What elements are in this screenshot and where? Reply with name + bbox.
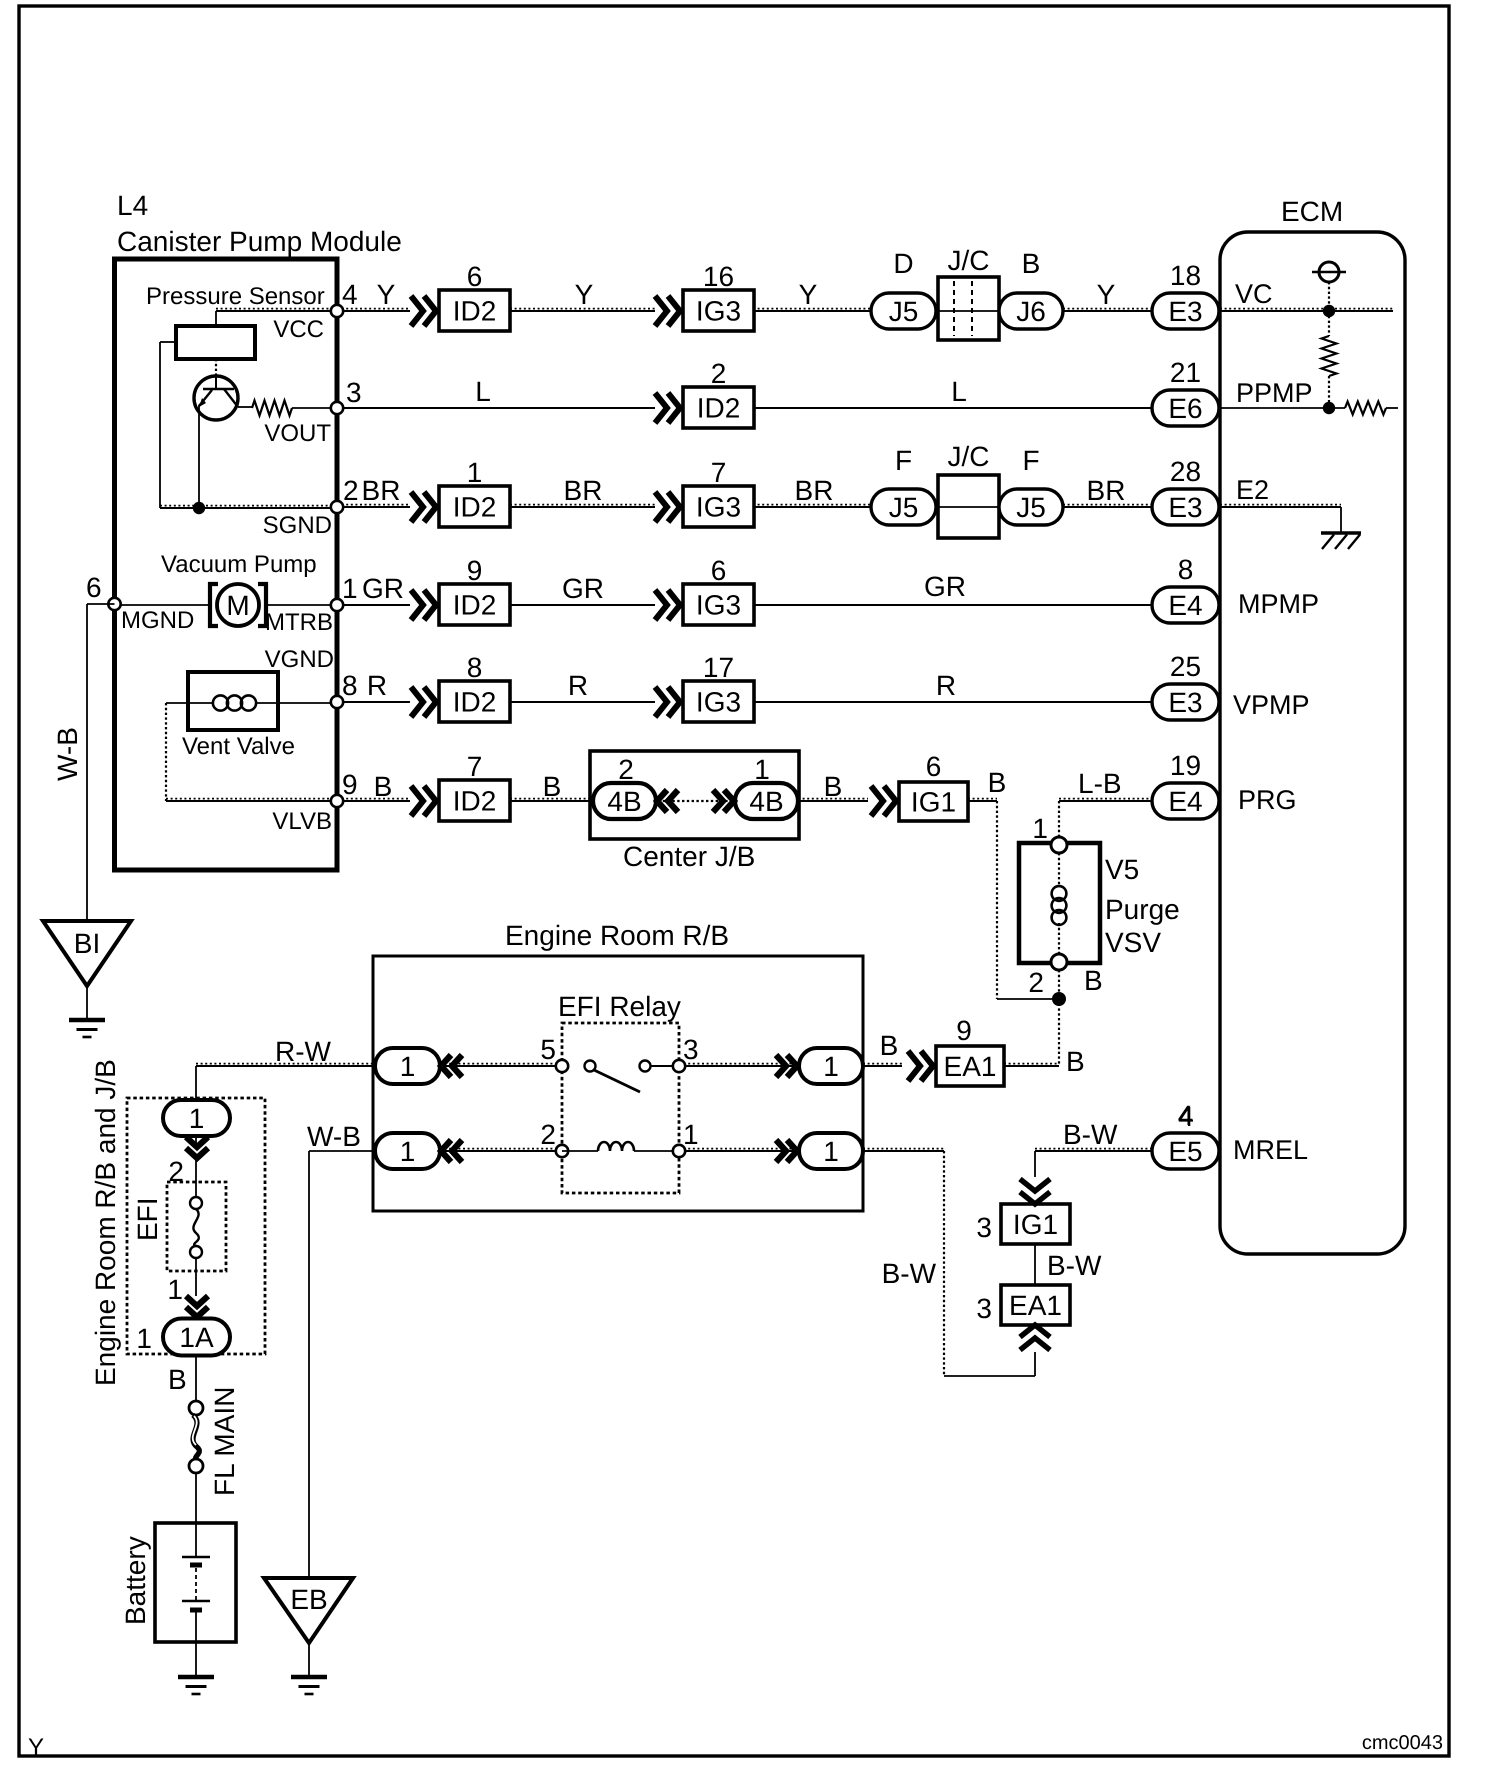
svg-text:18: 18 [1170, 260, 1201, 291]
svg-text:L: L [951, 376, 967, 407]
svg-text:VPMP: VPMP [1233, 690, 1310, 720]
svg-text:2: 2 [1028, 967, 1044, 998]
svg-text:BI: BI [74, 928, 100, 959]
svg-text:9: 9 [956, 1015, 972, 1046]
svg-text:1: 1 [1032, 813, 1048, 844]
svg-text:8: 8 [467, 652, 483, 683]
svg-text:1: 1 [167, 1274, 183, 1305]
svg-text:VCC: VCC [273, 316, 324, 343]
svg-text:4: 4 [342, 279, 358, 310]
svg-text:28: 28 [1170, 456, 1201, 487]
svg-text:6: 6 [711, 555, 727, 586]
svg-text:E3: E3 [1168, 492, 1202, 523]
svg-text:R: R [568, 670, 588, 701]
svg-text:Y: Y [28, 1734, 44, 1761]
svg-text:E3: E3 [1168, 687, 1202, 718]
svg-text:VLVB: VLVB [272, 808, 332, 835]
svg-text:E6: E6 [1168, 393, 1202, 424]
svg-text:EFI Relay: EFI Relay [558, 991, 681, 1022]
svg-text:IG3: IG3 [696, 687, 741, 718]
svg-text:IG1: IG1 [911, 787, 956, 818]
svg-text:E2: E2 [1236, 475, 1269, 505]
svg-text:1: 1 [136, 1323, 152, 1354]
svg-text:GR: GR [562, 573, 604, 604]
svg-text:VSV: VSV [1105, 927, 1161, 958]
svg-text:1: 1 [342, 573, 358, 604]
svg-text:B: B [1022, 248, 1041, 279]
svg-text:21: 21 [1170, 357, 1201, 388]
svg-text:Y: Y [575, 279, 594, 310]
svg-text:F: F [895, 445, 912, 476]
svg-text:6: 6 [926, 751, 942, 782]
svg-text:1: 1 [823, 1051, 839, 1082]
svg-text:W-B: W-B [307, 1121, 361, 1152]
svg-text:V5: V5 [1105, 854, 1139, 885]
svg-text:Canister Pump Module: Canister Pump Module [117, 226, 402, 257]
svg-text:IG1: IG1 [1013, 1209, 1058, 1240]
svg-text:5: 5 [540, 1034, 556, 1065]
svg-text:1A: 1A [179, 1322, 214, 1353]
svg-text:16: 16 [703, 261, 734, 292]
svg-text:4B: 4B [749, 786, 783, 817]
svg-text:Pressure Sensor: Pressure Sensor [146, 283, 325, 310]
svg-text:1: 1 [400, 1136, 416, 1167]
svg-text:B: B [1066, 1046, 1085, 1077]
svg-text:B: B [824, 771, 843, 802]
svg-text:Engine Room R/B and J/B: Engine Room R/B and J/B [90, 1059, 121, 1386]
svg-text:SGND: SGND [263, 512, 332, 539]
svg-text:MPMP: MPMP [1238, 589, 1319, 619]
svg-text:1: 1 [467, 457, 483, 488]
svg-text:EFI: EFI [132, 1197, 163, 1241]
svg-text:Vacuum Pump: Vacuum Pump [161, 551, 317, 578]
svg-text:4B: 4B [607, 786, 641, 817]
svg-text:Y: Y [377, 279, 396, 310]
svg-text:W-B: W-B [52, 727, 83, 781]
svg-text:J5: J5 [1016, 492, 1046, 523]
svg-text:Engine Room R/B: Engine Room R/B [505, 920, 729, 951]
svg-text:GR: GR [924, 571, 966, 602]
svg-text:B: B [168, 1364, 187, 1395]
svg-text:B-W: B-W [1047, 1250, 1102, 1281]
svg-text:J/C: J/C [948, 245, 990, 276]
svg-text:E3: E3 [1168, 296, 1202, 327]
svg-text:Y: Y [1097, 279, 1116, 310]
svg-text:IG3: IG3 [696, 492, 741, 523]
svg-text:R: R [936, 670, 956, 701]
svg-text:BR: BR [1087, 475, 1126, 506]
svg-text:BR: BR [362, 475, 401, 506]
svg-text:IG3: IG3 [696, 296, 741, 327]
svg-text:B: B [374, 771, 393, 802]
svg-text:D: D [893, 248, 913, 279]
svg-text:8: 8 [1178, 554, 1194, 585]
svg-text:19: 19 [1170, 750, 1201, 781]
svg-text:MGND: MGND [121, 607, 194, 634]
svg-text:2: 2 [343, 475, 359, 506]
svg-text:ECM: ECM [1281, 196, 1343, 227]
svg-text:Battery: Battery [120, 1536, 151, 1625]
svg-text:PRG: PRG [1238, 785, 1297, 815]
svg-text:EA1: EA1 [944, 1051, 997, 1082]
svg-text:FL MAIN: FL MAIN [209, 1387, 240, 1496]
svg-text:R-W: R-W [275, 1036, 332, 1067]
svg-text:IG3: IG3 [696, 590, 741, 621]
svg-text:4: 4 [1178, 1101, 1194, 1132]
svg-text:VGND: VGND [265, 646, 334, 673]
svg-text:1: 1 [823, 1136, 839, 1167]
svg-text:1: 1 [189, 1103, 205, 1134]
svg-text:17: 17 [703, 652, 734, 683]
svg-text:25: 25 [1170, 651, 1201, 682]
svg-text:3: 3 [346, 377, 362, 408]
svg-text:7: 7 [467, 751, 483, 782]
svg-text:ID2: ID2 [697, 393, 741, 424]
svg-text:B: B [543, 771, 562, 802]
svg-text:E5: E5 [1168, 1136, 1202, 1167]
svg-text:MTRB: MTRB [265, 609, 333, 636]
svg-text:2: 2 [540, 1119, 556, 1150]
svg-text:J6: J6 [1016, 296, 1046, 327]
svg-text:3: 3 [683, 1034, 699, 1065]
svg-text:J/C: J/C [948, 441, 990, 472]
svg-text:E4: E4 [1168, 786, 1202, 817]
svg-text:Center J/B: Center J/B [623, 841, 755, 872]
svg-text:GR: GR [362, 573, 404, 604]
svg-text:cmc0043: cmc0043 [1362, 1732, 1443, 1754]
svg-text:ID2: ID2 [453, 492, 497, 523]
svg-text:M: M [226, 590, 249, 621]
svg-text:ID2: ID2 [453, 687, 497, 718]
svg-text:J5: J5 [889, 296, 919, 327]
svg-text:VOUT: VOUT [264, 420, 331, 447]
svg-text:E4: E4 [1168, 590, 1202, 621]
svg-text:8: 8 [342, 670, 358, 701]
svg-text:MREL: MREL [1233, 1135, 1308, 1165]
svg-text:F: F [1022, 445, 1039, 476]
svg-text:VC: VC [1235, 279, 1273, 309]
svg-text:1: 1 [400, 1051, 416, 1082]
svg-text:Y: Y [799, 279, 818, 310]
svg-text:7: 7 [711, 457, 727, 488]
svg-text:9: 9 [342, 769, 358, 800]
svg-text:ID2: ID2 [453, 786, 497, 817]
svg-text:EB: EB [290, 1584, 327, 1615]
svg-text:2: 2 [711, 358, 727, 389]
svg-text:6: 6 [86, 572, 102, 603]
svg-text:3: 3 [976, 1293, 992, 1324]
svg-text:1: 1 [754, 754, 770, 785]
svg-text:B: B [1084, 965, 1103, 996]
svg-text:L-B: L-B [1078, 768, 1122, 799]
svg-text:B: B [880, 1030, 899, 1061]
svg-text:1: 1 [683, 1119, 699, 1150]
svg-text:BR: BR [564, 475, 603, 506]
svg-text:6: 6 [467, 261, 483, 292]
svg-text:BR: BR [795, 475, 834, 506]
svg-text:EA1: EA1 [1009, 1290, 1062, 1321]
svg-text:PPMP: PPMP [1236, 378, 1313, 408]
svg-text:ID2: ID2 [453, 590, 497, 621]
svg-text:B-W: B-W [882, 1258, 937, 1289]
svg-text:L: L [475, 376, 491, 407]
svg-text:J5: J5 [889, 492, 919, 523]
svg-text:B: B [988, 767, 1007, 798]
svg-text:R: R [367, 670, 387, 701]
svg-text:Purge: Purge [1105, 894, 1180, 925]
svg-text:B-W: B-W [1063, 1119, 1118, 1150]
svg-text:Vent Valve: Vent Valve [182, 733, 295, 760]
svg-text:2: 2 [618, 754, 634, 785]
svg-text:9: 9 [467, 555, 483, 586]
svg-text:ID2: ID2 [453, 296, 497, 327]
svg-text:3: 3 [976, 1212, 992, 1243]
svg-text:L4: L4 [117, 190, 148, 221]
